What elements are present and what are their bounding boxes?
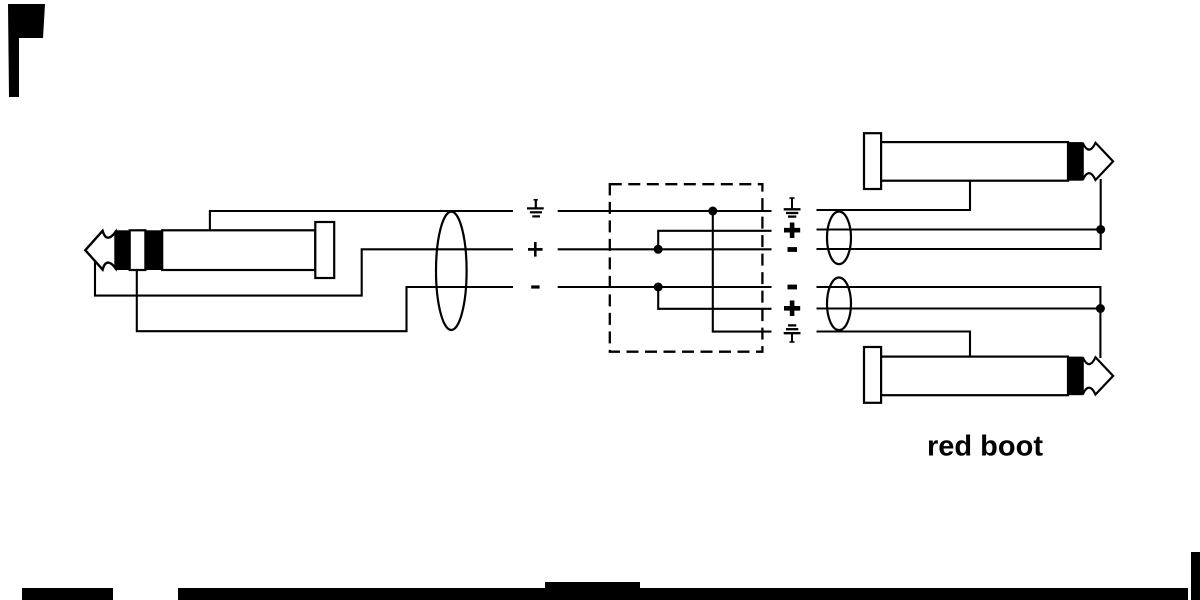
cable sheath ellipse E2 (upper right) (827, 212, 851, 265)
wire: lower minus feed to lower jack tip (817, 287, 1101, 358)
ground symbol (upper right shield label) (784, 198, 801, 217)
scan artifact: top-left corner blob (8, 4, 45, 97)
stereo jack plug J1 collar (315, 222, 334, 278)
wire: shield line into junction box (558, 210, 772, 212)
mono jack plug J2 tip (pointing right) (1083, 143, 1113, 180)
mono jack plug J2 rear cap (upper right) (864, 133, 881, 189)
mono jack plug J3 tip (pointing right) (1083, 357, 1113, 394)
mono jack plug J2 tip band (black) (1068, 142, 1083, 181)
plus label (upper right) (784, 223, 800, 239)
minus label (left) (531, 285, 539, 288)
node: lower jack tip dot (1096, 304, 1105, 313)
plus label (lower right) (784, 301, 800, 317)
plus label (left) (528, 242, 543, 257)
wire: sleeve of J1 up to shield line (210, 211, 513, 230)
cable sheath ellipse E1 (left) (436, 212, 467, 330)
node: minus junction dot (654, 283, 663, 292)
stereo jack plug J1 insulator gap (130, 230, 146, 270)
mono jack plug J3 tip band (black) (1068, 357, 1083, 396)
wire: plus line into junction box (558, 248, 772, 250)
node: plus junction dot (654, 245, 663, 254)
cable sheath ellipse E3 (lower right) (827, 278, 851, 331)
scan artifact: bottom mid bump (545, 582, 640, 590)
stereo jack plug J1 ring band 2 (black) (145, 230, 162, 270)
ground symbol (left shield label) (527, 199, 544, 216)
wire: ring of J1 to minus line (137, 270, 513, 331)
wire: upper minus feed to upper jack tip (817, 179, 1101, 249)
wire: minus junction down to lower plus feed (658, 287, 771, 309)
scan artifact: bottom bar (22, 588, 113, 600)
wire: shield to upper jack sleeve (817, 182, 971, 211)
wire: tip of J1 to plus line (95, 249, 513, 295)
wire: lower plus feed to tip node (817, 307, 1101, 309)
stereo jack plug J1 body (162, 230, 315, 270)
minus label (upper right) (788, 247, 798, 252)
wire: lower ground feed to lower jack sleeve (817, 332, 971, 357)
minus label (lower right) (788, 285, 798, 290)
stereo jack plug J1 ring band 1 (black) (115, 230, 130, 270)
junction box (dashed) (610, 184, 763, 352)
mono jack plug J2 body (881, 142, 1068, 181)
node: upper jack tip dot (1096, 225, 1105, 234)
ground symbol (lower right shield label, inverted) (784, 325, 801, 342)
stereo jack plug J1 tip (left, pointing left) (85, 231, 115, 270)
scan artifact: right edge bar (1191, 552, 1200, 600)
wire: shield junction down to lower ground feed (713, 211, 772, 332)
node: shield junction dot (708, 207, 717, 216)
wire: plus junction up to upper plus feed (658, 231, 771, 250)
svg-text:red boot: red boot (927, 431, 1043, 463)
mono jack plug J3 body (881, 357, 1068, 396)
wire: upper plus feed to tip node (817, 228, 1101, 230)
wire: minus line into junction box (558, 286, 772, 288)
mono jack plug J3 rear cap (lower right) (864, 347, 881, 403)
